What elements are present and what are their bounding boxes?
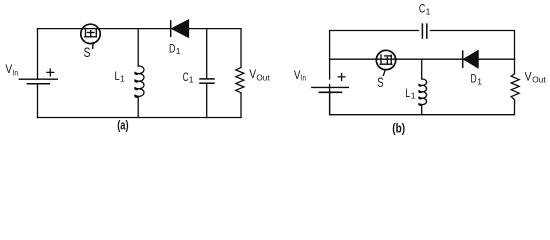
svg-text:V: V <box>5 64 12 76</box>
svg-text:1: 1 <box>477 76 482 86</box>
svg-text:(b): (b) <box>392 120 405 135</box>
svg-text:D: D <box>471 73 477 85</box>
svg-text:1: 1 <box>411 90 416 100</box>
svg-text:1: 1 <box>176 46 181 56</box>
svg-text:In: In <box>301 72 306 82</box>
svg-text:S: S <box>84 44 91 60</box>
svg-text:D: D <box>169 43 175 55</box>
svg-text:1: 1 <box>189 74 194 84</box>
svg-text:C: C <box>183 72 189 84</box>
svg-text:V: V <box>294 70 301 82</box>
svg-text:V: V <box>525 71 532 83</box>
svg-text:In: In <box>13 68 19 78</box>
svg-text:C: C <box>419 3 425 15</box>
svg-text:V: V <box>249 69 256 81</box>
svg-text:Out: Out <box>532 75 546 85</box>
svg-text:(a): (a) <box>117 118 128 132</box>
svg-text:1: 1 <box>426 6 431 16</box>
svg-text:S: S <box>377 74 383 90</box>
svg-text:1: 1 <box>120 74 125 84</box>
svg-text:Out: Out <box>256 73 270 83</box>
